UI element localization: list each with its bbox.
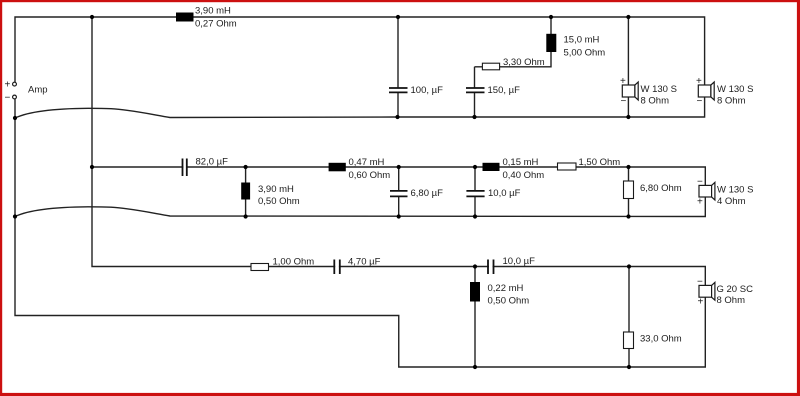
junction node 100uF on top return rail bbox=[395, 115, 399, 119]
svg-text:15,0 mH: 15,0 mH bbox=[564, 35, 600, 46]
capacitor 10uF series bottom bbox=[488, 256, 535, 274]
svg-text:G 20 SC: G 20 SC bbox=[717, 284, 754, 295]
wire 33 Ohm shunt leg bbox=[628, 267, 630, 368]
svg-text:8 Ohm: 8 Ohm bbox=[717, 96, 746, 107]
junction node 100uF tap on top rail bbox=[396, 15, 400, 19]
svg-text:+: + bbox=[5, 80, 11, 91]
svg-text:0,47 mH: 0,47 mH bbox=[349, 157, 385, 168]
svg-text:5,00 Ohm: 5,00 Ohm bbox=[564, 48, 606, 59]
wire 6.80uF shunt leg bbox=[398, 167, 400, 217]
inductor 15.0mH shunt bbox=[546, 34, 605, 59]
svg-text:150, µF: 150, µF bbox=[488, 85, 521, 96]
capacitor 100uF shunt bbox=[389, 85, 443, 96]
svg-text:4,70 µF: 4,70 µF bbox=[348, 257, 381, 268]
svg-text:10,0 µF: 10,0 µF bbox=[488, 188, 521, 199]
resistor 1.50 Ohm bbox=[558, 157, 621, 170]
svg-text:8 Ohm: 8 Ohm bbox=[717, 295, 746, 306]
wire top section bottom rail bbox=[398, 97, 705, 117]
svg-text:0,60 Ohm: 0,60 Ohm bbox=[349, 170, 391, 181]
speaker W130S no.1 bbox=[620, 76, 677, 107]
svg-text:W 130 S: W 130 S bbox=[717, 185, 753, 196]
svg-text:0,27 Ohm: 0,27 Ohm bbox=[195, 19, 237, 30]
svg-text:6,80 Ohm: 6,80 Ohm bbox=[640, 183, 682, 194]
svg-text:10,0 µF: 10,0 µF bbox=[503, 256, 536, 267]
junction node 33ohm on bottom rail bbox=[627, 365, 631, 369]
svg-text:+: + bbox=[620, 76, 626, 87]
speaker W130S mid bbox=[697, 177, 753, 208]
junction node 0.22mH on bottom rail bbox=[473, 365, 477, 369]
svg-text:−: − bbox=[697, 96, 703, 107]
resistor 33.0 Ohm shunt bbox=[624, 332, 682, 349]
resistor 6.80 Ohm shunt bbox=[624, 181, 682, 199]
junction node feeder tap on top rail bbox=[90, 15, 94, 19]
junction node 10uF tap on mid rail bbox=[473, 165, 477, 169]
junction node mid rail start bbox=[90, 165, 94, 169]
resistor 1.00 Ohm bbox=[251, 257, 314, 271]
wire mid rail bbox=[92, 167, 705, 185]
svg-text:−: − bbox=[5, 93, 11, 104]
junction node 6.80ohm tap on mid rail bbox=[626, 165, 630, 169]
svg-text:1,00 Ohm: 1,00 Ohm bbox=[273, 257, 315, 268]
wire speaker1 top leg bbox=[627, 17, 629, 85]
capacitor 4.70uF series bbox=[334, 257, 380, 275]
svg-text:+: + bbox=[698, 296, 704, 307]
svg-text:0,50 Ohm: 0,50 Ohm bbox=[488, 296, 530, 307]
svg-text:−: − bbox=[697, 177, 703, 188]
svg-text:82,0 µF: 82,0 µF bbox=[196, 157, 229, 168]
capacitor 10uF mid shunt bbox=[466, 188, 520, 199]
inductor 0.15mH series bbox=[483, 157, 545, 181]
inductor 0.22mH shunt bbox=[470, 282, 529, 307]
svg-text:1,50 Ohm: 1,50 Ohm bbox=[579, 157, 621, 168]
junction node 3.90mH tap on mid rail bbox=[244, 165, 248, 169]
wire vertical feeder x=92 and bottom branch bbox=[92, 17, 705, 285]
svg-text:−: − bbox=[621, 96, 627, 107]
svg-text:3,30 Ohm: 3,30 Ohm bbox=[503, 57, 545, 68]
svg-text:0,22 mH: 0,22 mH bbox=[488, 283, 524, 294]
Amp terminals bbox=[5, 80, 48, 104]
svg-text:100, µF: 100, µF bbox=[411, 85, 444, 96]
svg-text:W 130 S: W 130 S bbox=[717, 84, 753, 95]
wire wavy lower + mid bottom rail to mid speaker bbox=[15, 197, 705, 217]
inductor 3.90mH series top bbox=[176, 6, 237, 30]
resistor 3.30 Ohm bbox=[482, 57, 544, 70]
wire 10uF mid shunt leg bbox=[474, 167, 476, 217]
wire top rail from Amp+ to right speaker drop bbox=[15, 17, 705, 85]
junction node speaker1 on top return rail bbox=[626, 115, 630, 119]
junction node Amp- to upper return bbox=[13, 116, 17, 120]
speaker W130S no.2 bbox=[696, 76, 753, 107]
svg-text:4 Ohm: 4 Ohm bbox=[717, 196, 746, 207]
junction node 6.80uF on mid return rail bbox=[397, 214, 401, 218]
junction node 33ohm tap on tweeter branch bbox=[627, 264, 631, 268]
wire speaker1 bottom leg bbox=[627, 97, 629, 117]
svg-text:8 Ohm: 8 Ohm bbox=[641, 96, 670, 107]
svg-text:33,0 Ohm: 33,0 Ohm bbox=[640, 334, 682, 345]
wire 3.90mH mid shunt leg bbox=[245, 167, 247, 217]
wire 15mH + 3.30 Ohm branch to 150uF bbox=[475, 17, 552, 117]
wire Amp- return down-left side to bottom rail and tweeter + bbox=[15, 97, 705, 367]
wire 100uF shunt leg bbox=[397, 17, 399, 117]
junction node 10uF on mid return rail bbox=[473, 214, 477, 218]
svg-text:0,50 Ohm: 0,50 Ohm bbox=[258, 196, 300, 207]
junction node Amp- to mid return bbox=[13, 214, 17, 218]
svg-text:3,90 mH: 3,90 mH bbox=[258, 184, 294, 195]
junction node 15mH tap on top rail bbox=[549, 15, 553, 19]
capacitor 6.80uF shunt bbox=[390, 188, 443, 199]
svg-text:6,80 µF: 6,80 µF bbox=[411, 188, 444, 199]
junction node 150uF on top return rail bbox=[472, 115, 476, 119]
junction node speaker1 tap on top rail bbox=[626, 15, 630, 19]
junction node 0.22mH tap on tweeter branch bbox=[473, 264, 477, 268]
svg-text:+: + bbox=[696, 76, 702, 87]
svg-text:W 130 S: W 130 S bbox=[641, 84, 677, 95]
capacitor 82uF series bbox=[183, 157, 229, 177]
wire 0.22mH shunt leg bbox=[474, 267, 476, 368]
svg-text:3,90 mH: 3,90 mH bbox=[195, 6, 231, 17]
speaker G20SC bbox=[697, 277, 753, 308]
inductor 3.90mH mid shunt bbox=[241, 183, 300, 208]
svg-text:Amp: Amp bbox=[28, 84, 48, 95]
capacitor 150uF shunt bbox=[466, 85, 520, 96]
junction node 6.80uF tap on mid rail bbox=[397, 165, 401, 169]
svg-text:0,40 Ohm: 0,40 Ohm bbox=[503, 170, 545, 181]
svg-text:+: + bbox=[697, 197, 703, 208]
svg-text:−: − bbox=[697, 277, 703, 288]
junction node 3.90mH on mid return rail bbox=[244, 214, 248, 218]
wire 6.80 Ohm shunt leg bbox=[628, 167, 630, 217]
wire wavy upper (Amp- to top bottom rail) bbox=[15, 108, 398, 118]
junction node 6.80ohm on mid return rail bbox=[626, 214, 630, 218]
svg-text:0,15 mH: 0,15 mH bbox=[503, 157, 539, 168]
inductor 0.47mH series bbox=[329, 157, 391, 181]
